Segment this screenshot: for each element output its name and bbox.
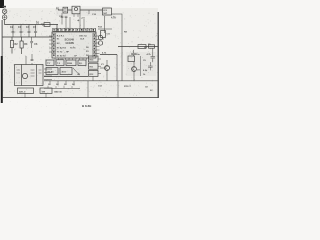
svg-text:4.7k: 4.7k — [111, 17, 116, 20]
svg-text:R13 C7: R13 C7 — [124, 86, 132, 88]
svg-text:B 8-6E: B 8-6E — [82, 104, 91, 108]
